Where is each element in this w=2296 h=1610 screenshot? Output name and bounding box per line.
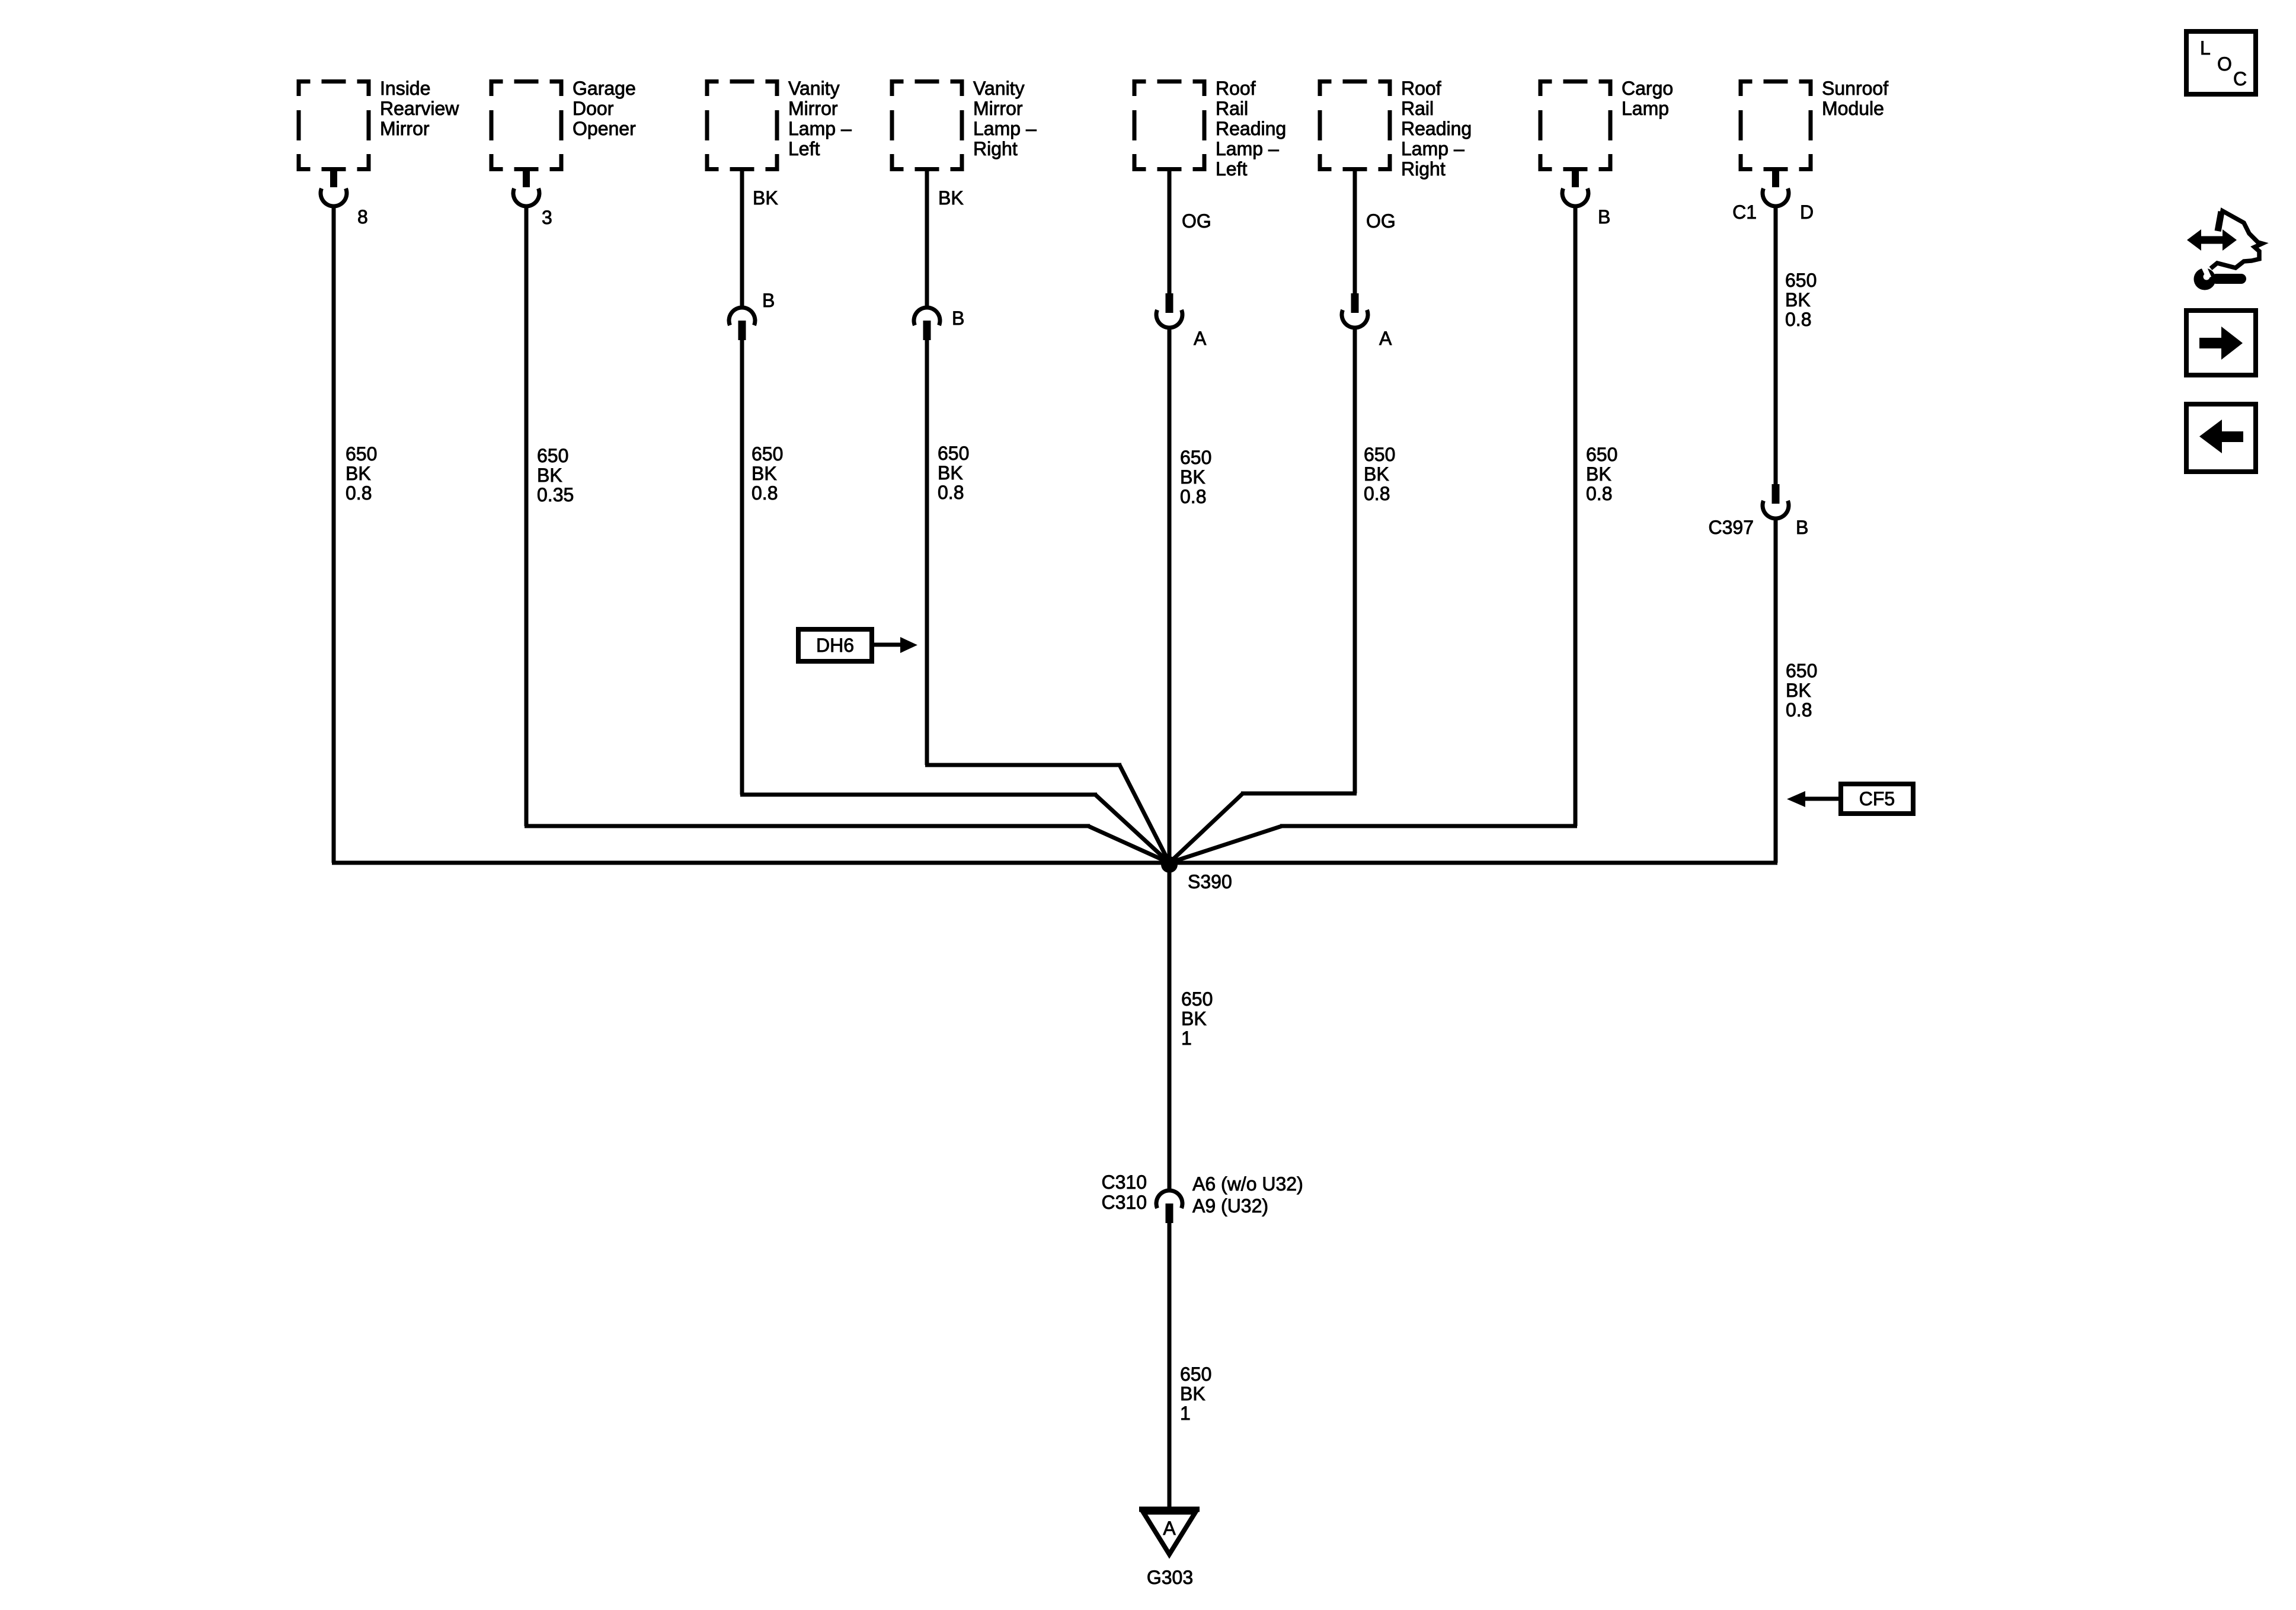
- svg-text:Rearview: Rearview: [380, 98, 459, 119]
- svg-text:Lamp –: Lamp –: [788, 118, 852, 139]
- svg-text:1: 1: [1180, 1403, 1191, 1424]
- wire Sunroof Module ground lead upper segment (650 BK 0.8): [1774, 206, 1778, 485]
- wire Vanity Mirror Lamp Left ground lead (650 BK 0.8): [740, 340, 744, 795]
- svg-text:650: 650: [938, 443, 969, 464]
- svg-text:D: D: [1800, 201, 1814, 223]
- svg-text:650: 650: [1180, 447, 1211, 468]
- svg-text:0.8: 0.8: [1786, 699, 1812, 721]
- svg-text:Lamp –: Lamp –: [1216, 138, 1279, 159]
- svg-text:L: L: [2200, 37, 2211, 59]
- svg-text:Vanity: Vanity: [788, 78, 840, 99]
- ground G303: [1139, 1507, 1200, 1512]
- svg-text:OG: OG: [1182, 210, 1211, 232]
- component box: Vanity Mirror Lamp Left (dashed outline): [705, 79, 779, 171]
- connector at Sunroof Module connector C1 pin D: terminal stub and socket arc: [1772, 168, 1779, 187]
- svg-text:650: 650: [1181, 988, 1213, 1010]
- svg-text:Garage: Garage: [573, 78, 636, 99]
- svg-text:A: A: [1194, 328, 1207, 349]
- svg-text:B: B: [762, 290, 775, 311]
- svg-text:OG: OG: [1366, 210, 1396, 232]
- inline connector C397: terminal stub over socket arc: [1772, 484, 1780, 504]
- wire Vanity Mirror Lamp Left BK lead above connector: [740, 171, 744, 308]
- svg-text:BK: BK: [938, 187, 964, 209]
- connector at Inside Rearview Mirror pin 8: terminal stub and socket arc: [330, 168, 337, 187]
- svg-text:0.8: 0.8: [1180, 486, 1206, 507]
- svg-text:Opener: Opener: [573, 118, 636, 139]
- svg-text:BK: BK: [753, 187, 778, 209]
- wire Cargo Lamp horizontal run toward S390: [1280, 824, 1577, 828]
- wire main ground wire C310 to G303 (650 BK 1): [1168, 1222, 1172, 1509]
- wire Sunroof Module ground lead lower segment (650 BK 0.8): [1774, 518, 1778, 863]
- svg-text:Rail: Rail: [1401, 98, 1434, 119]
- wire Roof Rail Reading Lamp Right OG lead above connector: [1353, 171, 1357, 295]
- svg-text:650: 650: [752, 443, 783, 465]
- svg-text:650: 650: [1586, 444, 1617, 465]
- svg-text:Lamp: Lamp: [1622, 98, 1669, 119]
- svg-text:Module: Module: [1822, 98, 1884, 119]
- wire Roof Rail Reading Lamp Right horizontal run toward S390: [1241, 792, 1357, 796]
- svg-text:650: 650: [346, 443, 377, 465]
- svg-text:BK: BK: [938, 462, 963, 484]
- wire Vanity Mirror Lamp Right ground lead (650 BK 0.8): [925, 340, 929, 765]
- svg-text:C1: C1: [1732, 201, 1757, 223]
- wire Cargo Lamp diagonal into S390: [1169, 826, 1282, 863]
- svg-text:Left: Left: [788, 138, 820, 159]
- svg-text:0.8: 0.8: [938, 482, 964, 503]
- wire Vanity Mirror Lamp Left diagonal into S390: [1095, 795, 1169, 863]
- svg-text:CF5: CF5: [1859, 788, 1895, 809]
- svg-text:650: 650: [537, 445, 568, 466]
- svg-text:BK: BK: [1181, 1008, 1207, 1029]
- svg-text:Sunroof: Sunroof: [1822, 78, 1888, 99]
- component box: Inside Rearview Mirror (dashed outline): [297, 79, 371, 171]
- svg-text:S390: S390: [1188, 871, 1232, 892]
- component box: Sunroof Module (dashed outline): [1739, 79, 1813, 171]
- svg-text:Inside: Inside: [380, 78, 430, 99]
- svg-text:B: B: [952, 308, 964, 329]
- wire Vanity Mirror Lamp Left horizontal run toward S390: [740, 793, 1097, 797]
- wire Garage Door Opener diagonal into S390: [1088, 826, 1169, 863]
- svg-text:BK: BK: [1180, 1383, 1205, 1404]
- wire bottom horizontal bus from Inside Rearview Mirror and Sunroof Module into S390: [332, 861, 1777, 865]
- svg-text:Mirror: Mirror: [973, 98, 1023, 119]
- svg-text:Lamp –: Lamp –: [1401, 138, 1464, 159]
- svg-text:C: C: [2233, 68, 2247, 89]
- callout CF5 (off-page reference into Sunroof Module wire): [1841, 784, 1913, 814]
- svg-text:0.8: 0.8: [1586, 483, 1612, 504]
- svg-text:1: 1: [1181, 1028, 1192, 1049]
- wire Roof Rail Reading Lamp Right ground lead (650 BK 0.8): [1353, 328, 1357, 793]
- svg-text:0.8: 0.8: [752, 482, 778, 504]
- svg-text:BK: BK: [1364, 463, 1389, 485]
- component box: Roof Rail Reading Lamp Left (dashed outline): [1133, 79, 1207, 171]
- svg-text:Roof: Roof: [1216, 78, 1256, 99]
- wire Garage Door Opener ground lead (650 BK 0.35): [525, 206, 529, 826]
- wire Vanity Mirror Lamp Right diagonal into S390: [1120, 765, 1169, 863]
- svg-text:Vanity: Vanity: [973, 78, 1025, 99]
- svg-text:BK: BK: [537, 465, 562, 486]
- connector at Cargo Lamp pin B: terminal stub and socket arc: [1572, 168, 1579, 187]
- inline connector A (Roof Rail Reading Lamp Left): terminal stub over socket arc: [1166, 293, 1173, 313]
- svg-text:Rail: Rail: [1216, 98, 1248, 119]
- component box: Vanity Mirror Lamp Right (dashed outline): [890, 79, 964, 171]
- svg-text:650: 650: [1786, 660, 1817, 681]
- svg-text:A9 (U32): A9 (U32): [1192, 1195, 1268, 1217]
- svg-text:B: B: [1796, 517, 1808, 538]
- svg-text:0.8: 0.8: [1364, 483, 1390, 504]
- inline connector B (Vanity Mirror Lamp Right): socket arc over terminal stub: [914, 308, 940, 325]
- svg-text:Reading: Reading: [1401, 118, 1472, 139]
- svg-text:Mirror: Mirror: [788, 98, 838, 119]
- wire Roof Rail Reading Lamp Right diagonal into S390: [1169, 793, 1243, 863]
- wire Cargo Lamp ground lead (650 BK 0.8): [1574, 206, 1578, 826]
- svg-text:Reading: Reading: [1216, 118, 1286, 139]
- icon: vehicle outline with double arrow and wrench (harness routing): [2211, 211, 2262, 268]
- svg-text:O: O: [2217, 53, 2232, 75]
- inline connector B (Vanity Mirror Lamp Left): socket arc over terminal stub: [729, 308, 755, 325]
- svg-text:BK: BK: [1786, 680, 1811, 701]
- svg-text:Door: Door: [573, 98, 614, 119]
- legend box: arrow left (wire continues): [2186, 404, 2256, 472]
- wire Vanity Mirror Lamp Right BK lead above connector: [925, 171, 929, 308]
- legend box: arrow right (wire continues): [2186, 311, 2256, 375]
- wire Roof Rail Reading Lamp Left ground lead (650 BK 0.8): [1168, 328, 1172, 863]
- svg-text:BK: BK: [1785, 289, 1811, 311]
- callout DH6 (off-page reference into Vanity Mirror Lamp Right wire): [798, 629, 872, 661]
- legend box LOC: [2186, 31, 2256, 94]
- svg-text:Cargo: Cargo: [1622, 78, 1673, 99]
- svg-text:BK: BK: [752, 463, 777, 484]
- svg-text:650: 650: [1180, 1363, 1211, 1385]
- svg-text:DH6: DH6: [816, 635, 854, 656]
- svg-text:A: A: [1379, 328, 1392, 349]
- svg-text:8: 8: [357, 206, 368, 228]
- svg-text:Right: Right: [973, 138, 1018, 159]
- svg-text:BK: BK: [346, 463, 371, 484]
- component box: Cargo Lamp (dashed outline): [1539, 79, 1613, 171]
- svg-text:BK: BK: [1586, 463, 1611, 485]
- svg-text:Left: Left: [1216, 158, 1247, 180]
- svg-text:0.8: 0.8: [346, 482, 372, 504]
- wire Garage Door Opener horizontal run toward S390: [525, 824, 1090, 828]
- svg-text:650: 650: [1785, 270, 1817, 291]
- svg-text:Mirror: Mirror: [380, 118, 430, 139]
- svg-text:BK: BK: [1180, 466, 1205, 488]
- svg-text:Lamp –: Lamp –: [973, 118, 1037, 139]
- splice S390: [1161, 856, 1178, 873]
- inline connector C310: socket arc over terminal stub: [1156, 1190, 1182, 1208]
- svg-text:3: 3: [542, 207, 552, 228]
- wire Inside Rearview Mirror ground lead (650 BK 0.8): [332, 206, 336, 863]
- svg-text:G303: G303: [1147, 1567, 1193, 1588]
- svg-text:B: B: [1598, 206, 1610, 228]
- svg-text:650: 650: [1364, 444, 1395, 465]
- svg-text:Right: Right: [1401, 158, 1446, 180]
- component box: Garage Door Opener (dashed outline): [490, 79, 564, 171]
- svg-text:A: A: [1163, 1518, 1176, 1539]
- inline connector A (Roof Rail Reading Lamp Right): terminal stub over socket arc: [1351, 293, 1359, 313]
- svg-text:A6 (w/o U32): A6 (w/o U32): [1192, 1173, 1303, 1195]
- connector at Garage Door Opener pin 3: terminal stub and socket arc: [523, 168, 530, 187]
- svg-text:C310: C310: [1102, 1192, 1147, 1213]
- svg-text:0.8: 0.8: [1785, 309, 1811, 330]
- svg-text:Roof: Roof: [1401, 78, 1441, 99]
- wire Roof Rail Reading Lamp Left OG lead above connector: [1168, 171, 1172, 295]
- svg-text:C397: C397: [1709, 517, 1754, 538]
- svg-text:C310: C310: [1102, 1172, 1147, 1193]
- wire main ground wire S390 to C310 (650 BK 1): [1168, 863, 1172, 1191]
- component box: Roof Rail Reading Lamp Right (dashed outline): [1318, 79, 1392, 171]
- wire Vanity Mirror Lamp Right horizontal run toward S390: [925, 763, 1121, 767]
- svg-text:0.35: 0.35: [537, 484, 574, 505]
